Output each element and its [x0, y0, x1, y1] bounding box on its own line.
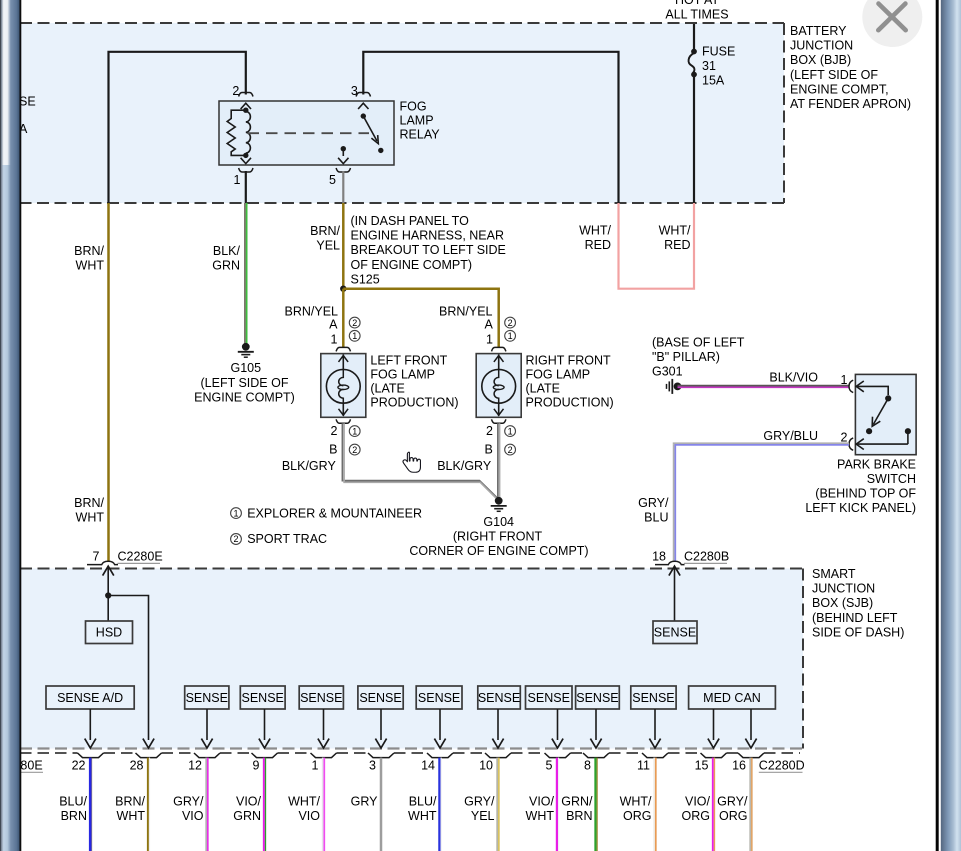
- svg-text:(IN DASH PANEL TO: (IN DASH PANEL TO: [351, 214, 470, 228]
- svg-text:G105: G105: [231, 361, 262, 375]
- svg-text:SENSE: SENSE: [300, 691, 342, 705]
- wire relay pin1 stub: [245, 171, 247, 203]
- svg-text:1: 1: [234, 173, 241, 187]
- wire WHT/RED U-link: [619, 203, 695, 289]
- svg-text:ORG: ORG: [623, 809, 651, 823]
- BJB region fill: [20, 23, 784, 203]
- svg-text:10: 10: [479, 759, 493, 773]
- svg-text:HOT AT: HOT AT: [675, 0, 719, 7]
- svg-text:AT FENDER APRON): AT FENDER APRON): [790, 97, 911, 111]
- SENSE box (pin18): [653, 621, 697, 644]
- park brake switch arm: [873, 398, 888, 424]
- svg-text:2: 2: [352, 318, 357, 328]
- svg-text:GRY: GRY: [351, 795, 379, 809]
- svg-text:2: 2: [352, 445, 357, 455]
- right window frame border: [936, 0, 939, 851]
- wire BRN/WHT trunk: [107, 203, 110, 561]
- svg-text:ORG: ORG: [682, 809, 710, 823]
- svg-text:WHT: WHT: [76, 259, 105, 273]
- svg-text:"B" PILLAR): "B" PILLAR): [652, 350, 720, 364]
- svg-text:SWITCH: SWITCH: [867, 472, 916, 486]
- svg-text:5: 5: [329, 173, 336, 187]
- svg-text:8: 8: [584, 759, 591, 773]
- svg-text:B: B: [329, 442, 337, 456]
- svg-text:YEL: YEL: [471, 809, 495, 823]
- ground G301: [674, 383, 682, 391]
- svg-text:A: A: [329, 318, 338, 332]
- svg-text:(LEFT SIDE OF: (LEFT SIDE OF: [790, 68, 878, 82]
- svg-text:3: 3: [369, 759, 376, 773]
- relay switch entry arrow (pin 3): [358, 103, 368, 109]
- svg-text:JUNCTION: JUNCTION: [790, 39, 853, 53]
- svg-text:5: 5: [546, 759, 553, 773]
- svg-text:LAMP: LAMP: [400, 114, 434, 128]
- SENSE box (pin wire 655.0): [631, 686, 676, 709]
- svg-text:1: 1: [312, 759, 319, 773]
- svg-text:MED CAN: MED CAN: [703, 691, 761, 705]
- svg-text:SENSE: SENSE: [632, 691, 674, 705]
- svg-text:BLK/GRY: BLK/GRY: [437, 459, 492, 473]
- park brake internal: pin1 to upper contact: [856, 386, 888, 395]
- svg-text:SENSE A/D: SENSE A/D: [57, 691, 123, 705]
- svg-text:(LATE: (LATE: [526, 382, 561, 396]
- svg-text:BLU/: BLU/: [59, 795, 87, 809]
- svg-text:WHT/: WHT/: [659, 224, 691, 238]
- svg-text:SPORT TRAC: SPORT TRAC: [247, 532, 327, 546]
- svg-text:(RIGHT FRONT: (RIGHT FRONT: [453, 529, 543, 543]
- content left border: [20, 0, 22, 851]
- wire relay pin5 stub: [342, 171, 344, 203]
- svg-text:16: 16: [732, 759, 746, 773]
- svg-text:C2280B: C2280B: [684, 550, 729, 564]
- svg-text:SENSE: SENSE: [478, 691, 520, 705]
- svg-text:RED: RED: [585, 238, 611, 252]
- svg-text:(LATE: (LATE: [370, 382, 405, 396]
- svg-text:FUSE: FUSE: [702, 45, 735, 59]
- svg-text:1: 1: [841, 373, 848, 387]
- ground G105: [242, 343, 250, 351]
- close button: [862, 0, 922, 47]
- MED CAN box: [689, 686, 776, 709]
- wire: fuse 31 down to BJB edge: [693, 75, 695, 204]
- svg-text:BATTERY: BATTERY: [790, 24, 847, 38]
- svg-text:SE: SE: [19, 95, 36, 109]
- wire GRY/BLU: [674, 443, 849, 445]
- svg-text:2: 2: [508, 318, 513, 328]
- wire: relay pin 3 to WHT/RED drop: [363, 52, 618, 203]
- svg-text:VIO: VIO: [298, 809, 320, 823]
- svg-text:ENGINE COMPT): ENGINE COMPT): [194, 390, 295, 404]
- svg-text:SENSE: SENSE: [242, 691, 284, 705]
- pin 18 arrow into SJB: [669, 566, 680, 575]
- connector row C2280E / C2280D dashed line with pin dips: [20, 752, 78, 754]
- svg-text:B: B: [485, 442, 493, 456]
- svg-text:FOG LAMP: FOG LAMP: [526, 368, 591, 382]
- svg-text:C2280E: C2280E: [118, 550, 163, 564]
- svg-text:BRN/YEL: BRN/YEL: [439, 304, 493, 318]
- svg-text:JUNCTION: JUNCTION: [812, 582, 875, 596]
- park brake pin2 contact: [905, 428, 911, 434]
- svg-text:SENSE: SENSE: [576, 691, 618, 705]
- SENSE box (pin wire 207.0): [185, 686, 229, 709]
- svg-text:CORNER OF ENGINE COMPT): CORNER OF ENGINE COMPT): [409, 544, 588, 558]
- right fog lamp filament: [494, 369, 499, 403]
- left fog lamp bottom connector: [336, 419, 350, 423]
- SENSE box (pin wire 596.0): [576, 686, 620, 709]
- svg-text:12: 12: [188, 759, 202, 773]
- svg-text:GRY/BLU: GRY/BLU: [763, 429, 818, 443]
- svg-text:FOG: FOG: [400, 100, 427, 114]
- svg-text:SIDE OF DASH): SIDE OF DASH): [812, 625, 904, 639]
- SJB bottom dashed edge: [20, 747, 803, 749]
- relay coil winding: [246, 112, 251, 154]
- pin 18 connector bump: [655, 561, 685, 564]
- fuse 31 symbol: [691, 49, 697, 55]
- svg-text:A: A: [485, 318, 494, 332]
- svg-text:GRN: GRN: [212, 259, 240, 273]
- svg-text:PARK BRAKE: PARK BRAKE: [837, 457, 916, 471]
- svg-text:ORG: ORG: [719, 809, 747, 823]
- svg-text:1: 1: [352, 426, 357, 436]
- svg-text:2: 2: [233, 534, 238, 544]
- relay coil resistor: [227, 110, 246, 155]
- svg-text:WHT: WHT: [408, 809, 437, 823]
- wire BLK/VIO: [678, 385, 850, 387]
- wire: BJB feed to relay pin 2: [109, 52, 246, 203]
- HSD box: [86, 621, 133, 644]
- svg-text:OF ENGINE COMPT): OF ENGINE COMPT): [351, 258, 473, 272]
- park brake pin2 arrow: [856, 439, 864, 450]
- SENSE A/D box (pin wire 90.3): [46, 686, 134, 709]
- svg-text:14: 14: [421, 759, 435, 773]
- svg-text:BLU/: BLU/: [409, 795, 437, 809]
- right fog lamp bottom connector: [492, 419, 506, 423]
- svg-text:BRN: BRN: [566, 809, 592, 823]
- relay box: [219, 101, 394, 165]
- svg-text:GRN/: GRN/: [561, 795, 593, 809]
- svg-text:BRN/: BRN/: [115, 795, 145, 809]
- svg-text:RELAY: RELAY: [400, 128, 441, 142]
- svg-text:BRN: BRN: [61, 809, 87, 823]
- svg-text:PRODUCTION): PRODUCTION): [370, 396, 458, 410]
- wire BRN/YEL S125 to left lamp: [342, 289, 345, 348]
- svg-text:BLU: BLU: [644, 511, 668, 525]
- svg-text:2: 2: [486, 424, 493, 438]
- svg-text:LEFT KICK PANEL): LEFT KICK PANEL): [805, 501, 916, 515]
- svg-text:GRY/: GRY/: [638, 496, 669, 510]
- svg-text:WHT/: WHT/: [620, 795, 652, 809]
- SENSE box (pin wire 264.5): [240, 686, 285, 709]
- relay actuator dashed link: [248, 132, 370, 134]
- wire: feed to fuse 31: [693, 24, 695, 51]
- svg-text:VIO/: VIO/: [685, 795, 711, 809]
- wire BLK/GRY left lamp to G104: [342, 423, 497, 498]
- svg-text:WHT: WHT: [117, 809, 146, 823]
- svg-text:WHT: WHT: [526, 809, 555, 823]
- SENSE box (pin wire 381.0): [358, 686, 403, 709]
- svg-text:(BEHIND TOP OF: (BEHIND TOP OF: [815, 487, 916, 501]
- svg-text:HSD: HSD: [96, 626, 122, 640]
- svg-text:BLK/VIO: BLK/VIO: [769, 370, 818, 384]
- left fog lamp filament: [339, 369, 344, 403]
- svg-text:SENSE: SENSE: [528, 691, 570, 705]
- svg-text:15: 15: [695, 759, 709, 773]
- svg-text:YEL: YEL: [316, 239, 340, 253]
- svg-text:ENGINE HARNESS, NEAR: ENGINE HARNESS, NEAR: [351, 229, 505, 243]
- svg-text:SENSE: SENSE: [654, 626, 696, 640]
- svg-text:1: 1: [486, 333, 493, 347]
- svg-text:BLK/GRY: BLK/GRY: [282, 459, 337, 473]
- SJB region fill: [20, 569, 803, 749]
- svg-text:BLK/: BLK/: [213, 244, 241, 258]
- svg-text:G104: G104: [483, 515, 514, 529]
- svg-text:C2280D: C2280D: [759, 759, 805, 773]
- svg-text:SENSE: SENSE: [359, 691, 401, 705]
- SENSE box (pin wire 557.5): [526, 686, 573, 709]
- svg-text:GRY/: GRY/: [464, 795, 495, 809]
- left fog lamp body: [321, 354, 366, 418]
- svg-text:BRN/: BRN/: [74, 244, 104, 258]
- right fog lamp top connector: [492, 347, 506, 351]
- svg-text:EXPLORER & MOUNTAINEER: EXPLORER & MOUNTAINEER: [247, 506, 422, 520]
- svg-text:WHT: WHT: [76, 511, 105, 525]
- svg-text:LEFT FRONT: LEFT FRONT: [370, 354, 447, 368]
- svg-text:RIGHT FRONT: RIGHT FRONT: [526, 354, 612, 368]
- svg-text:VIO: VIO: [182, 809, 204, 823]
- relay coil entry arrow (pin 2): [241, 103, 251, 109]
- svg-text:BOX (BJB): BOX (BJB): [790, 53, 851, 67]
- wire BLK/GRN: [244, 203, 246, 344]
- svg-text:(LEFT SIDE OF: (LEFT SIDE OF: [201, 376, 289, 390]
- svg-text:18: 18: [652, 550, 666, 564]
- svg-text:G301: G301: [652, 365, 683, 379]
- relay switch arm: [363, 116, 377, 141]
- SJB dashed border: [20, 569, 803, 749]
- pin 7 arrow into SJB: [103, 566, 114, 575]
- relay coil exit arrow (pin 1): [241, 158, 251, 164]
- svg-text:GRN: GRN: [233, 809, 261, 823]
- right fog lamp body: [476, 354, 521, 418]
- splice S125: [340, 286, 346, 292]
- svg-text:(BASE OF LEFT: (BASE OF LEFT: [652, 335, 745, 349]
- wire BLK/GRY right lamp to G104: [497, 423, 499, 498]
- svg-text:1: 1: [233, 508, 238, 518]
- SENSE box (pin wire 498.0): [478, 686, 521, 709]
- svg-text:GRY/: GRY/: [173, 795, 204, 809]
- svg-text:S125: S125: [351, 272, 380, 286]
- MED CAN arrow pin 15: [713, 709, 715, 740]
- park brake pin1 arrow: [856, 381, 864, 392]
- wire BRN/YEL to S125: [342, 203, 345, 289]
- svg-text:11: 11: [637, 759, 650, 773]
- svg-text:BOX (SJB): BOX (SJB): [812, 596, 873, 610]
- svg-text:VIO/: VIO/: [236, 795, 262, 809]
- ground G104: [495, 497, 503, 505]
- right window gradient strip: [941, 0, 961, 851]
- svg-text:SENSE: SENSE: [418, 691, 460, 705]
- svg-text:SENSE: SENSE: [186, 691, 228, 705]
- BJB dashed border: [20, 23, 784, 203]
- svg-text:RED: RED: [664, 238, 690, 252]
- mouse hand cursor: [403, 452, 420, 472]
- svg-text:ENGINE COMPT,: ENGINE COMPT,: [790, 82, 889, 96]
- svg-text:1: 1: [508, 331, 513, 341]
- legend item 1: [231, 508, 242, 519]
- svg-text:2: 2: [331, 424, 338, 438]
- relay switch contact (pin 5): [341, 146, 346, 151]
- svg-text:WHT/: WHT/: [288, 795, 320, 809]
- park brake internal pin2 line: [856, 443, 908, 445]
- svg-text:22: 22: [72, 759, 86, 773]
- pin 7 connector bump: [87, 561, 118, 564]
- svg-text:BRN/: BRN/: [74, 496, 104, 510]
- SENSE box (pin wire 440.0): [416, 686, 462, 709]
- SENSE box (pin wire 323.5): [299, 686, 343, 709]
- svg-text:BREAKOUT TO LEFT SIDE: BREAKOUT TO LEFT SIDE: [351, 243, 506, 257]
- svg-text:28: 28: [130, 759, 144, 773]
- svg-text:1: 1: [331, 333, 338, 347]
- svg-text:BRN/YEL: BRN/YEL: [285, 304, 339, 318]
- MED CAN arrow pin 16: [750, 709, 752, 740]
- svg-text:FOG LAMP: FOG LAMP: [370, 368, 435, 382]
- svg-text:31: 31: [702, 59, 716, 73]
- svg-text:VIO/: VIO/: [529, 795, 555, 809]
- park brake switch box: [855, 374, 916, 454]
- wire BRN/YEL S125 to right lamp: [343, 289, 498, 348]
- park brake lower contact: [866, 428, 872, 434]
- svg-text:1: 1: [508, 426, 513, 436]
- left fog lamp top connector: [336, 347, 350, 351]
- svg-text:15A: 15A: [702, 74, 725, 88]
- svg-text:ALL TIMES: ALL TIMES: [665, 8, 728, 22]
- svg-text:PRODUCTION): PRODUCTION): [526, 396, 614, 410]
- svg-text:9: 9: [253, 759, 260, 773]
- legend item 2: [231, 534, 242, 545]
- branch to pin 28: [108, 596, 148, 741]
- svg-text:(BEHIND LEFT: (BEHIND LEFT: [812, 611, 898, 625]
- svg-text:WHT/: WHT/: [579, 224, 611, 238]
- svg-text:BRN/: BRN/: [310, 224, 340, 238]
- svg-text:1: 1: [352, 331, 357, 341]
- junction to HSD: [105, 592, 111, 598]
- svg-text:GRY/: GRY/: [717, 795, 748, 809]
- svg-text:7: 7: [93, 550, 100, 564]
- svg-text:SMART: SMART: [812, 567, 856, 581]
- svg-text:2: 2: [508, 445, 513, 455]
